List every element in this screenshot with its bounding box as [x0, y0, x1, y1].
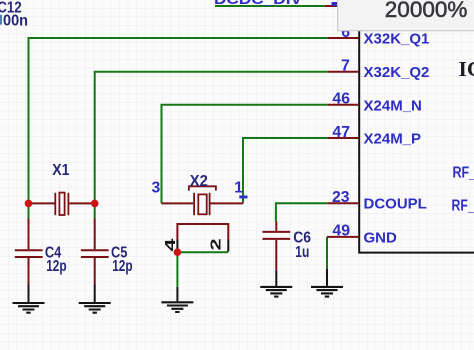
designator X2 [190, 173, 208, 190]
pin name RF_N (right, clipped) [452, 198, 474, 215]
pin 46 X24M_N [328, 91, 422, 115]
value 1u (C6) [295, 244, 309, 261]
wire net DCDC_DIV (top) [215, 2, 337, 6]
pin 6 X32K_Q1 [328, 24, 429, 48]
pin number 2 (X2, rotated) [207, 238, 224, 250]
svg-text:00n: 00n [3, 13, 28, 30]
wire net X32K_Q1 [29, 38, 329, 203]
junction node X1 left [25, 200, 33, 208]
svg-text:IC1: IC1 [459, 57, 474, 81]
net label DCDC_DIV [214, 0, 302, 8]
svg-text:RF_N: RF_N [452, 198, 474, 215]
svg-text:GND: GND [364, 229, 398, 246]
wire net GND (pin 49 to ground) [326, 237, 328, 269]
designator C6 [293, 230, 311, 247]
svg-text:2: 2 [207, 238, 224, 250]
svg-text:49: 49 [332, 223, 350, 240]
value 12p (C4) [46, 258, 66, 275]
value 100n (C12, clipped) [0, 13, 28, 30]
capacitor C6 [262, 222, 290, 271]
crystal X1 [29, 193, 95, 216]
svg-text:X1: X1 [52, 162, 70, 179]
capacitor C5 [81, 203, 109, 284]
svg-text:X2: X2 [190, 173, 208, 190]
ground (GND pin) [311, 269, 343, 297]
IC body outline [358, 0, 474, 253]
ground (X2 case) [161, 287, 193, 312]
svg-text:12p: 12p [112, 258, 132, 275]
svg-text:47: 47 [332, 124, 350, 141]
svg-text:1u: 1u [295, 244, 309, 261]
svg-text:X24M_N: X24M_N [364, 97, 422, 114]
ground (C4) [13, 285, 45, 313]
ground (C6) [260, 270, 292, 296]
pin number 4 (X2, rotated) [162, 238, 179, 251]
svg-text:46: 46 [332, 91, 350, 108]
pin 23 DCOUPL [328, 189, 427, 213]
capacitor C4 [15, 203, 43, 284]
wire X2 case bottom [177, 252, 228, 287]
designator C5 [111, 245, 128, 262]
svg-text:X24M_P: X24M_P [364, 131, 422, 148]
crystal X2 [162, 186, 244, 251]
blue tick on X24M_P wire [239, 196, 247, 199]
pin 47 X24M_P [328, 124, 421, 148]
svg-text:7: 7 [341, 58, 350, 75]
svg-text:20000%: 20000% [385, 0, 468, 22]
pin number 3 (X2) [152, 179, 161, 196]
svg-text:DCDC_DIV: DCDC_DIV [214, 0, 302, 8]
pin 49 GND [327, 223, 397, 247]
value 12p (C5) [112, 258, 132, 275]
designator IC [459, 57, 474, 81]
junction node X1 right [91, 200, 99, 208]
ground (C5) [79, 285, 111, 313]
svg-text:RF_P: RF_P [453, 164, 474, 181]
svg-text:1: 1 [234, 180, 243, 197]
wire net X24M_P [243, 138, 328, 203]
pin name RF_P (right, clipped) [453, 164, 474, 181]
wire net X32K_Q2 [95, 72, 328, 204]
zoom level popup overlay [338, 0, 474, 31]
svg-text:DCOUPL: DCOUPL [364, 196, 427, 213]
pin 7 X32K_Q2 [328, 58, 429, 82]
pin number 1 (X2) [234, 180, 243, 197]
designator C4 [45, 245, 62, 262]
svg-text:X32K_Q2: X32K_Q2 [364, 64, 430, 81]
designator X1 [52, 162, 70, 179]
capacitor C12 label [0, 0, 22, 16]
svg-text:X32K_Q1: X32K_Q1 [364, 31, 430, 48]
svg-text:12p: 12p [46, 258, 66, 275]
wire net X24M_N [162, 105, 329, 204]
junction node X2 case [174, 248, 182, 256]
svg-text:23: 23 [332, 189, 350, 206]
svg-text:3: 3 [152, 179, 161, 196]
wire net DCOUPL [276, 203, 328, 221]
